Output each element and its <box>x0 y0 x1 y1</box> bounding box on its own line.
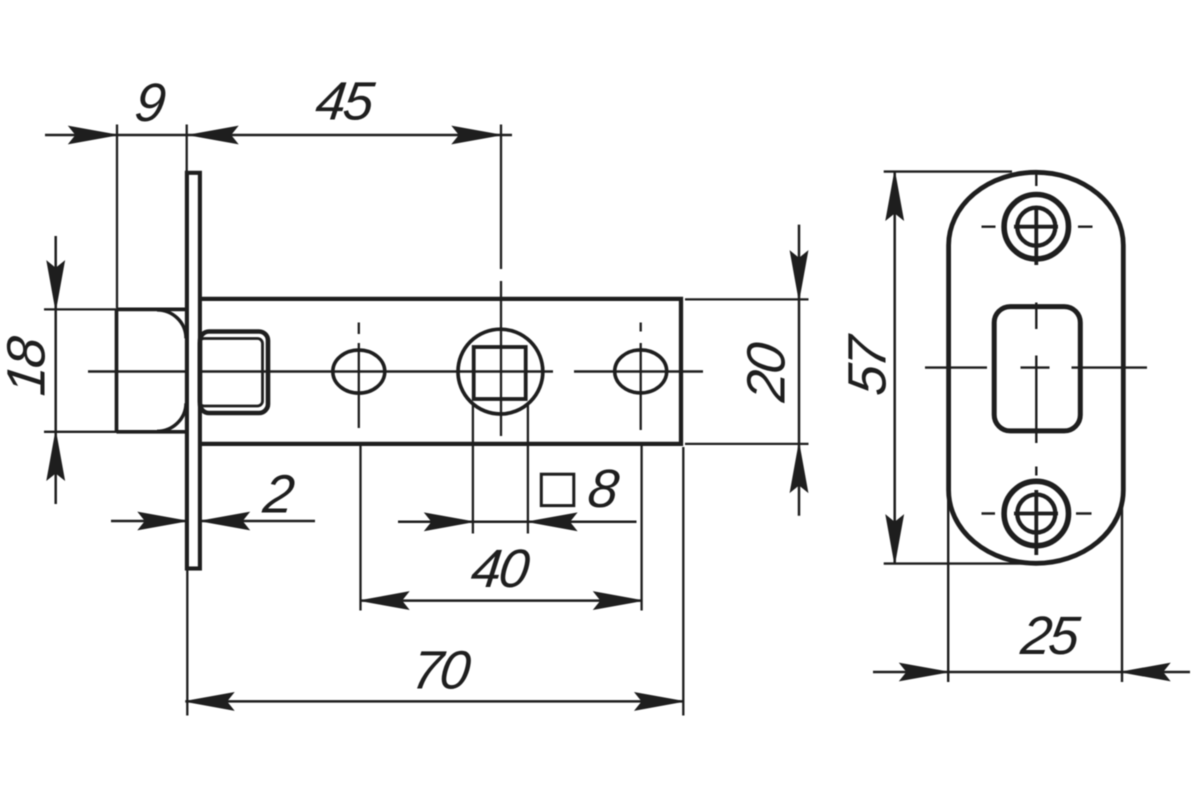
svg-text:57: 57 <box>838 332 898 399</box>
svg-text:2: 2 <box>259 465 297 525</box>
svg-text:20: 20 <box>737 340 797 406</box>
svg-text:18: 18 <box>0 334 56 399</box>
svg-text:45: 45 <box>313 72 379 132</box>
svg-text:8: 8 <box>585 459 622 519</box>
svg-text:70: 70 <box>409 641 474 701</box>
svg-text:9: 9 <box>132 73 169 133</box>
svg-text:40: 40 <box>468 539 533 599</box>
svg-text:25: 25 <box>1017 606 1084 666</box>
